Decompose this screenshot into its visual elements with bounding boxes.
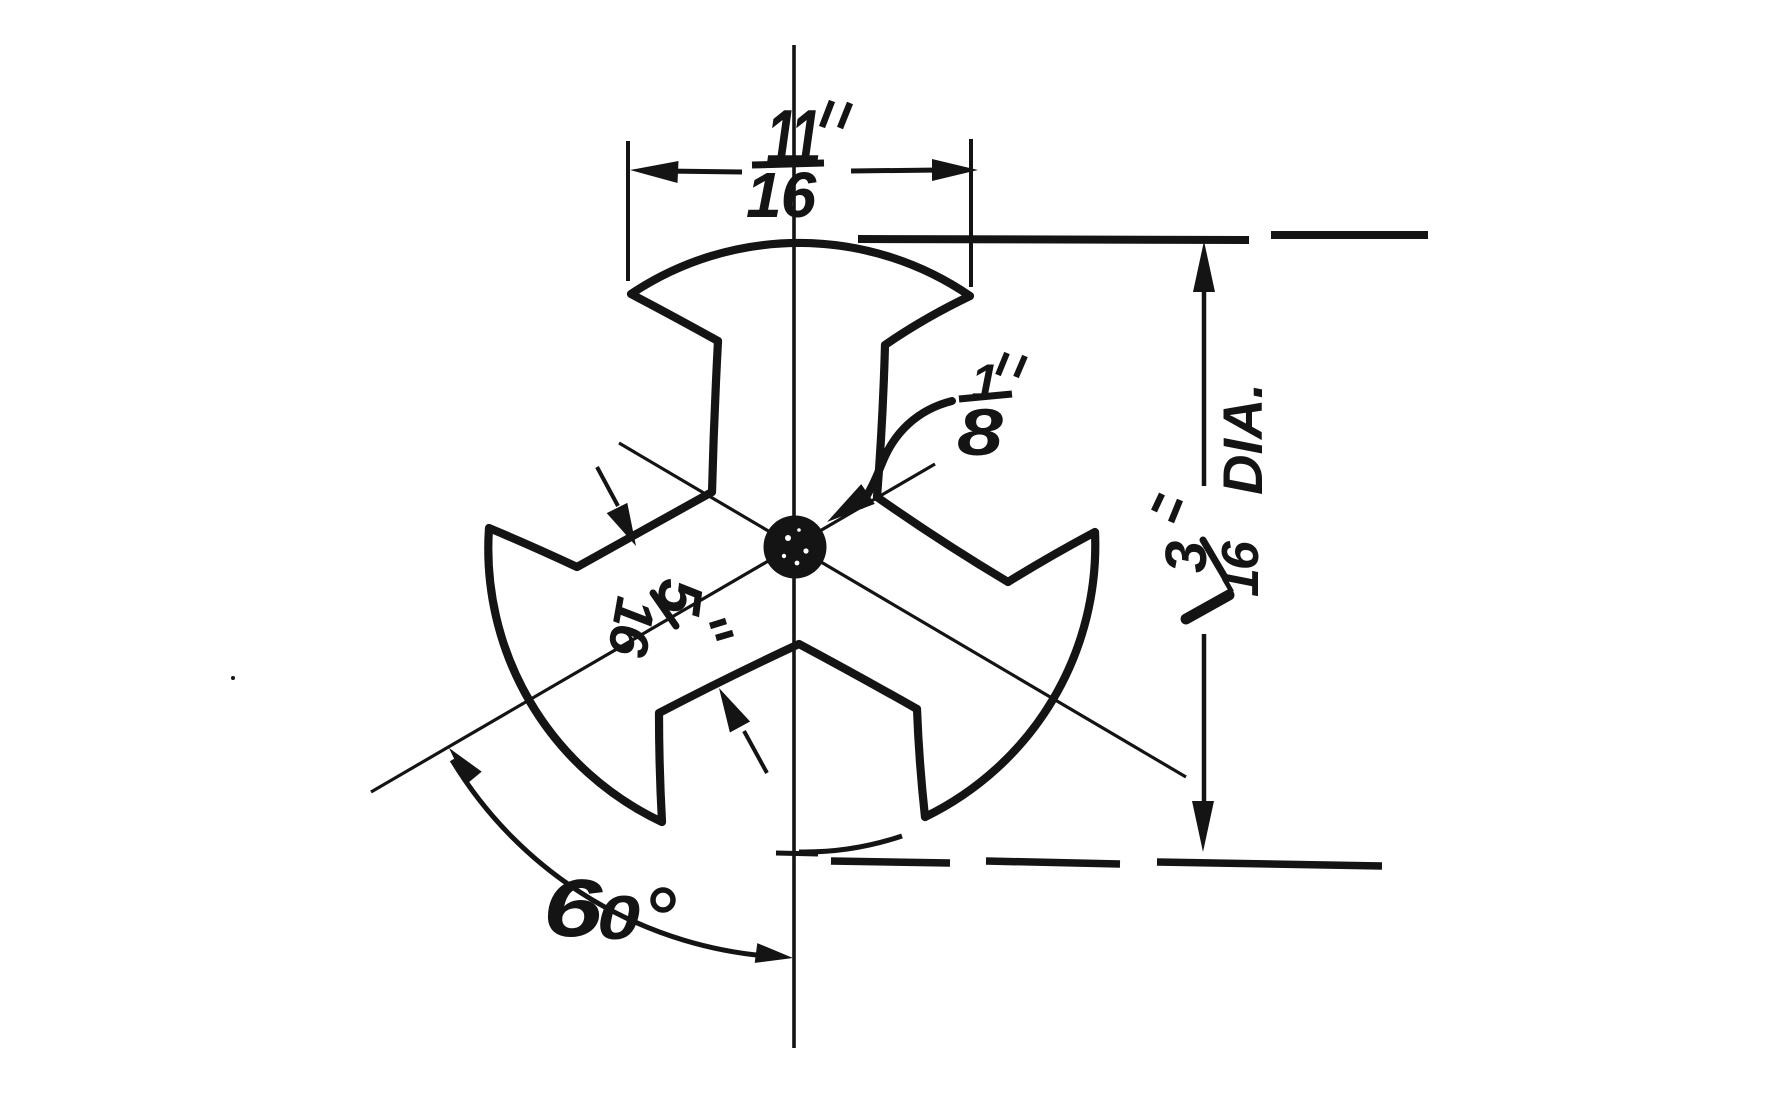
svg-text:16: 16 bbox=[1212, 540, 1270, 597]
dimension 1-3/16 DIA vertical line with arrows bbox=[1202, 286, 1207, 486]
svg-text:16: 16 bbox=[746, 159, 817, 231]
paper speck bbox=[231, 676, 235, 680]
top phantom line bbox=[858, 239, 1249, 240]
60 degree arc bbox=[452, 760, 780, 957]
diagonal centerline 150-330 bbox=[619, 443, 1186, 777]
leader line for 1/8 hole bbox=[861, 401, 952, 505]
diagonal centerline 30-210 bbox=[371, 464, 935, 792]
5/16 arrow lower bbox=[744, 731, 767, 773]
dimension 11/16 left arrow bbox=[664, 171, 742, 172]
the "1" of 1 3/16 drawn as slash bbox=[1186, 595, 1229, 619]
dimension text 1 3/16 DIA (rotated) bbox=[1154, 383, 1274, 597]
dimension 11/16 extension line right bbox=[969, 139, 973, 287]
dimension text 11/16 bbox=[766, 94, 819, 181]
center hole 1/8 filled bbox=[764, 516, 827, 579]
dimension 11/16 extension line left bbox=[626, 141, 630, 281]
svg-text:0: 0 bbox=[597, 882, 640, 952]
text 60 deg bbox=[543, 863, 604, 954]
svg-text:8: 8 bbox=[957, 395, 1003, 469]
5/16 arrow upper bbox=[597, 467, 618, 506]
svg-text:6: 6 bbox=[543, 863, 604, 954]
part outline: three-arm rotor blank bbox=[488, 243, 1095, 822]
svg-text:DIA.: DIA. bbox=[1211, 383, 1274, 495]
vertical centerline bbox=[792, 45, 796, 1048]
dimension 11/16 right arrow bbox=[851, 170, 940, 171]
bottom phantom line bbox=[776, 853, 818, 854]
